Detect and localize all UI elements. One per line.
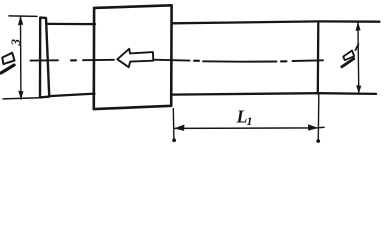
L1 dimension arrowhead left bbox=[174, 125, 184, 131]
D1 dimension arrowhead down bbox=[356, 85, 361, 94]
L1 left extension end dot bbox=[172, 138, 176, 142]
label D1 subscript 1 bbox=[355, 44, 358, 50]
label D3 (rotated handwritten De) bbox=[1, 53, 15, 73]
D3 dimension arrowhead down bbox=[18, 91, 23, 100]
centerline dash right of hollow arrow bbox=[153, 59, 190, 62]
L1 right extension line bbox=[317, 95, 320, 139]
centerline dash entering block bbox=[83, 59, 114, 61]
centerline dot bbox=[281, 60, 287, 62]
D1 dimension arrowhead up bbox=[356, 22, 361, 31]
label D1 (rotated handwritten De) bbox=[342, 51, 354, 67]
centerline dot bbox=[194, 60, 199, 62]
right cylinder right edge bbox=[317, 22, 320, 94]
D1 dimension line bbox=[357, 22, 360, 93]
right cylinder top edge + D1 top extension line bbox=[172, 21, 380, 23]
svg-text:3: 3 bbox=[8, 39, 23, 47]
L1 left extension line bbox=[172, 109, 175, 139]
D3 top extension tick bbox=[9, 15, 37, 18]
L1 dimension arrowhead right bbox=[308, 124, 318, 130]
svg-text:1: 1 bbox=[247, 114, 253, 128]
D3 bottom extension tick bbox=[3, 98, 40, 99]
L1 dimension line bbox=[175, 127, 324, 128]
D3 dimension arrowhead up bbox=[18, 16, 23, 25]
central block (hub) bbox=[94, 5, 172, 109]
centerline dash through flange bbox=[31, 59, 59, 61]
centerline dash crossing right edge bbox=[293, 59, 324, 62]
D3 dimension line bbox=[20, 17, 22, 100]
right cylinder bottom edge + D1 bottom extension line bbox=[171, 93, 376, 94]
centerline dot bbox=[71, 59, 76, 61]
flange disc left bbox=[40, 18, 49, 98]
hollow arrow pointing left inside block bbox=[117, 49, 153, 67]
centerline long dash in right cylinder bbox=[203, 60, 277, 62]
L1 right extension end dot bbox=[316, 139, 320, 143]
shaft section between flange and block (top line) bbox=[47, 23, 96, 26]
shaft section between flange and block (bottom line) bbox=[49, 94, 94, 97]
